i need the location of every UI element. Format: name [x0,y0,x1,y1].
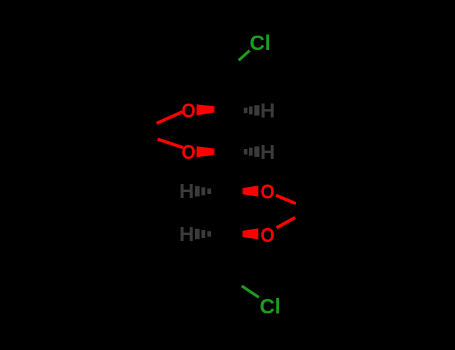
svg-text:H: H [179,223,194,246]
bond C6-Cl (green half, bottom) [242,286,259,297]
hash bond C4-H [195,186,211,196]
svg-text:O: O [181,100,195,123]
bond O1-C7 (red half, acetal methylene top left) [157,112,183,123]
hash bond C3-H [244,147,260,157]
wedge bond C4-O3 [223,186,259,197]
bond O2-C7 (red half, acetal methylene bottom left) [158,139,183,148]
svg-text:O: O [181,141,195,164]
bond O4-C8 (red half, acetal methylene bottom right) [277,218,296,228]
hash bond C5-H [195,229,211,239]
wedge bond C3-O2 [197,146,237,157]
svg-text:H: H [179,180,194,203]
svg-text:H: H [260,100,275,123]
bond O3-C8 (red half, acetal methylene top right) [276,195,296,203]
bond C1-Cl (green half, top) [239,51,250,61]
svg-text:Cl: Cl [250,32,271,55]
wedge bond C2-O1 [197,104,237,115]
svg-text:H: H [260,141,275,164]
wedge bond C5-O4 [223,228,259,239]
hash bond C2-H [244,105,260,115]
svg-text:O: O [260,181,274,204]
svg-text:O: O [260,224,274,247]
svg-text:Cl: Cl [260,295,281,318]
